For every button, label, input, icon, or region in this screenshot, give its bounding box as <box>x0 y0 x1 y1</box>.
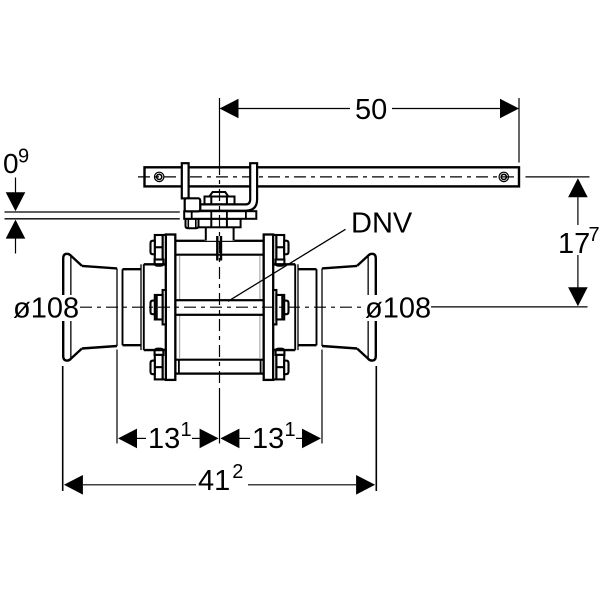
svg-text:13: 13 <box>148 423 180 455</box>
svg-text:1: 1 <box>181 419 192 441</box>
svg-text:DNV: DNV <box>351 208 413 240</box>
svg-text:50: 50 <box>355 94 387 126</box>
svg-text:ø108: ø108 <box>13 293 79 325</box>
svg-text:2: 2 <box>232 461 243 483</box>
svg-text:1: 1 <box>285 419 296 441</box>
svg-text:ø108: ø108 <box>365 293 431 325</box>
svg-text:17: 17 <box>558 228 590 260</box>
svg-text:13: 13 <box>252 423 284 455</box>
svg-text:9: 9 <box>18 146 29 168</box>
svg-text:7: 7 <box>589 224 600 246</box>
svg-text:41: 41 <box>198 465 230 497</box>
svg-text:0: 0 <box>3 148 19 179</box>
